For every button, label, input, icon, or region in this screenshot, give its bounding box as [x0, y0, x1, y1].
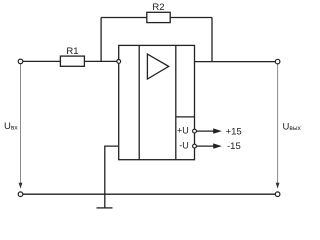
svg-text:Uвых: Uвых — [283, 122, 302, 133]
svg-text:-U: -U — [179, 141, 189, 151]
svg-text:+U: +U — [177, 126, 189, 136]
svg-text:R2: R2 — [152, 2, 164, 13]
svg-text:-15: -15 — [227, 141, 241, 152]
svg-text:+15: +15 — [226, 127, 242, 138]
svg-text:R1: R1 — [66, 46, 78, 57]
svg-text:Uвх: Uвх — [4, 121, 18, 132]
